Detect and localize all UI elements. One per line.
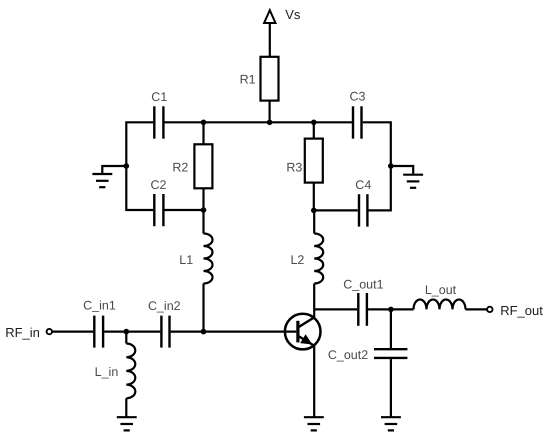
ground (left, at C1/C2 midpoint)	[92, 166, 126, 187]
capacitor C_in1	[83, 299, 116, 348]
junction R2 bottom / L1 top	[201, 207, 207, 213]
capacitor C_in2	[148, 299, 181, 348]
transistor Q1	[285, 314, 321, 350]
svg-text:L_in: L_in	[95, 365, 119, 379]
junction R3 top	[311, 120, 317, 126]
inductor L2	[290, 234, 323, 284]
power symbol Vs	[264, 7, 301, 23]
wire R1 to top rail	[269, 101, 271, 123]
junction right rail / ground tap	[388, 163, 394, 169]
svg-text:R3: R3	[286, 160, 302, 174]
resistor R1	[240, 57, 279, 101]
svg-text:C1: C1	[151, 90, 167, 104]
wire right loop (C3 to right vertical to C4)	[363, 122, 391, 210]
junction R3 bottom / L2 top	[311, 208, 317, 214]
junction R2 top	[201, 120, 207, 126]
svg-text:L2: L2	[290, 253, 304, 267]
junction left rail / ground tap	[124, 163, 130, 169]
wire L2 bottom / collector lead	[313, 284, 315, 319]
wire top rail C1 to C3	[165, 121, 353, 123]
svg-text:R2: R2	[172, 160, 188, 174]
wire R2 bottom lead	[202, 188, 204, 210]
ground (right, at C3/C4 midpoint)	[391, 166, 423, 188]
node RF_out terminal	[487, 303, 543, 318]
junction output node	[388, 307, 394, 313]
svg-text:L1: L1	[179, 253, 193, 267]
wire C_out1 to output junction	[368, 308, 391, 310]
wire Vs to R1	[269, 23, 271, 57]
wire junction to L_out	[391, 308, 414, 310]
junction L1 / base rail	[201, 329, 207, 335]
svg-text:C3: C3	[350, 90, 366, 104]
resistor R3	[286, 139, 322, 183]
svg-text:C2: C2	[151, 178, 167, 192]
wire R3 bottom lead	[313, 183, 315, 211]
capacitor C3	[350, 90, 366, 139]
wire R3 junction to C4	[314, 209, 358, 211]
capacitor C4	[355, 178, 371, 227]
ground (below emitter)	[304, 417, 324, 430]
wire output junction to C_out2	[390, 309, 392, 348]
wire L_in top lead	[125, 332, 127, 344]
svg-text:C_out1: C_out1	[343, 278, 383, 292]
svg-text:RF_out: RF_out	[500, 303, 543, 318]
wire C_in2 to base	[171, 331, 297, 333]
wire emitter lead	[313, 345, 315, 417]
wire C_in1 to L_in junction	[104, 331, 126, 333]
wire L_in bottom lead	[125, 398, 127, 417]
wire RF_in to C_in1	[53, 331, 94, 333]
wire L1 top lead	[202, 210, 204, 234]
wire junction to C_in2	[126, 331, 160, 333]
inductor L_in	[95, 344, 136, 399]
wire L1 bottom lead to base rail	[202, 284, 204, 332]
svg-text:L_out: L_out	[425, 283, 457, 297]
capacitor C2	[151, 178, 167, 226]
junction R1 bottom	[267, 120, 273, 126]
svg-text:Vs: Vs	[285, 7, 301, 22]
capacitor C1	[151, 90, 167, 139]
inductor L_out	[414, 283, 466, 310]
svg-text:C4: C4	[355, 178, 371, 192]
node RF_in terminal	[5, 325, 52, 340]
wire left loop (top rail corner, left vertical, to C2)	[126, 122, 153, 210]
junction L_in tap	[124, 329, 130, 335]
svg-text:C_in1: C_in1	[83, 299, 116, 313]
wire collector branch to C_out1	[314, 308, 357, 310]
svg-text:C_out2: C_out2	[328, 348, 368, 362]
svg-text:R1: R1	[240, 73, 256, 87]
ground (below L_in)	[117, 417, 137, 430]
ground (below C_out2)	[381, 417, 401, 430]
wire R3 top lead	[313, 122, 315, 138]
wire R2 top lead	[202, 122, 204, 144]
inductor L1	[179, 234, 212, 284]
resistor R2	[172, 144, 212, 188]
wire L_out to RF_out	[466, 308, 487, 310]
capacitor C_out1	[343, 278, 383, 326]
wire C2 to R2 junction	[165, 209, 204, 211]
svg-text:C_in2: C_in2	[148, 299, 181, 313]
wire C_out2 bottom lead	[390, 359, 392, 417]
wire L2 top lead	[313, 210, 315, 233]
capacitor C_out2	[328, 348, 408, 362]
svg-text:RF_in: RF_in	[5, 325, 40, 340]
